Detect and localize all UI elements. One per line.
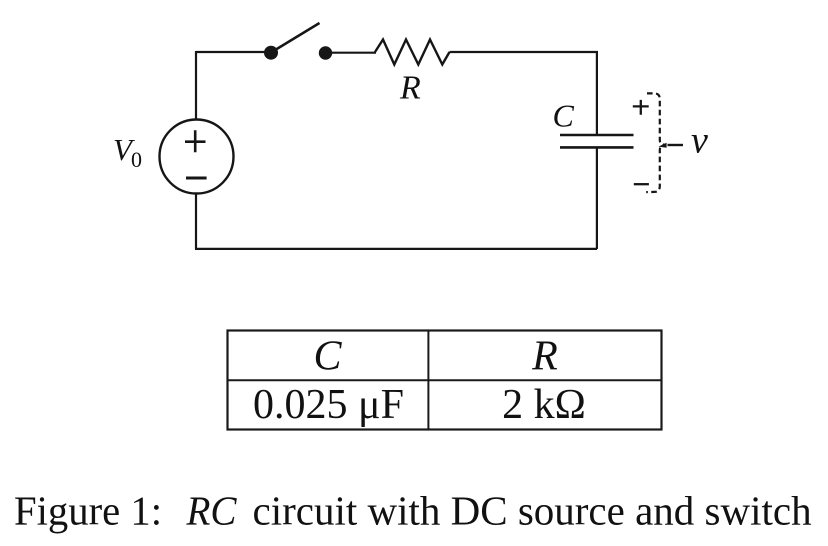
svg-text:v: v xyxy=(691,120,708,162)
label plus of bracket xyxy=(633,100,649,115)
svg-text:C: C xyxy=(313,334,342,380)
wire switch to resistor xyxy=(326,52,377,54)
voltage source V0 xyxy=(160,120,234,194)
wire right vertical upper xyxy=(596,52,598,135)
resistor R xyxy=(375,40,450,65)
label C xyxy=(553,98,575,134)
switch S1 xyxy=(264,23,332,60)
wire left vertical lower xyxy=(195,193,197,249)
label V0 xyxy=(113,132,142,172)
label minus of bracket xyxy=(634,183,649,185)
label v xyxy=(691,120,708,162)
svg-text:Figure 1:: Figure 1: xyxy=(14,488,162,534)
svg-text:circuit with DC source and swi: circuit with DC source and switch xyxy=(253,488,812,534)
svg-text:R: R xyxy=(531,334,558,380)
capacitor C xyxy=(560,135,634,147)
wire left vertical upper xyxy=(195,51,197,121)
caption Figure 1 xyxy=(14,488,812,534)
voltage bracket dashed brace xyxy=(646,93,666,192)
svg-text:C: C xyxy=(553,98,575,134)
wire top-left horizontal xyxy=(196,51,271,53)
svg-text:2 kΩ: 2 kΩ xyxy=(502,382,586,428)
wire bottom horizontal xyxy=(195,248,597,250)
label R xyxy=(399,70,421,107)
wire dash to v xyxy=(668,144,684,146)
wire right vertical lower xyxy=(596,147,598,249)
table component values xyxy=(228,331,662,430)
svg-text:0.025 μF: 0.025 μF xyxy=(253,382,404,428)
svg-text:RC: RC xyxy=(186,488,238,534)
svg-text:0: 0 xyxy=(131,147,142,172)
svg-text:R: R xyxy=(399,70,421,107)
wire top-right horizontal xyxy=(450,51,599,53)
